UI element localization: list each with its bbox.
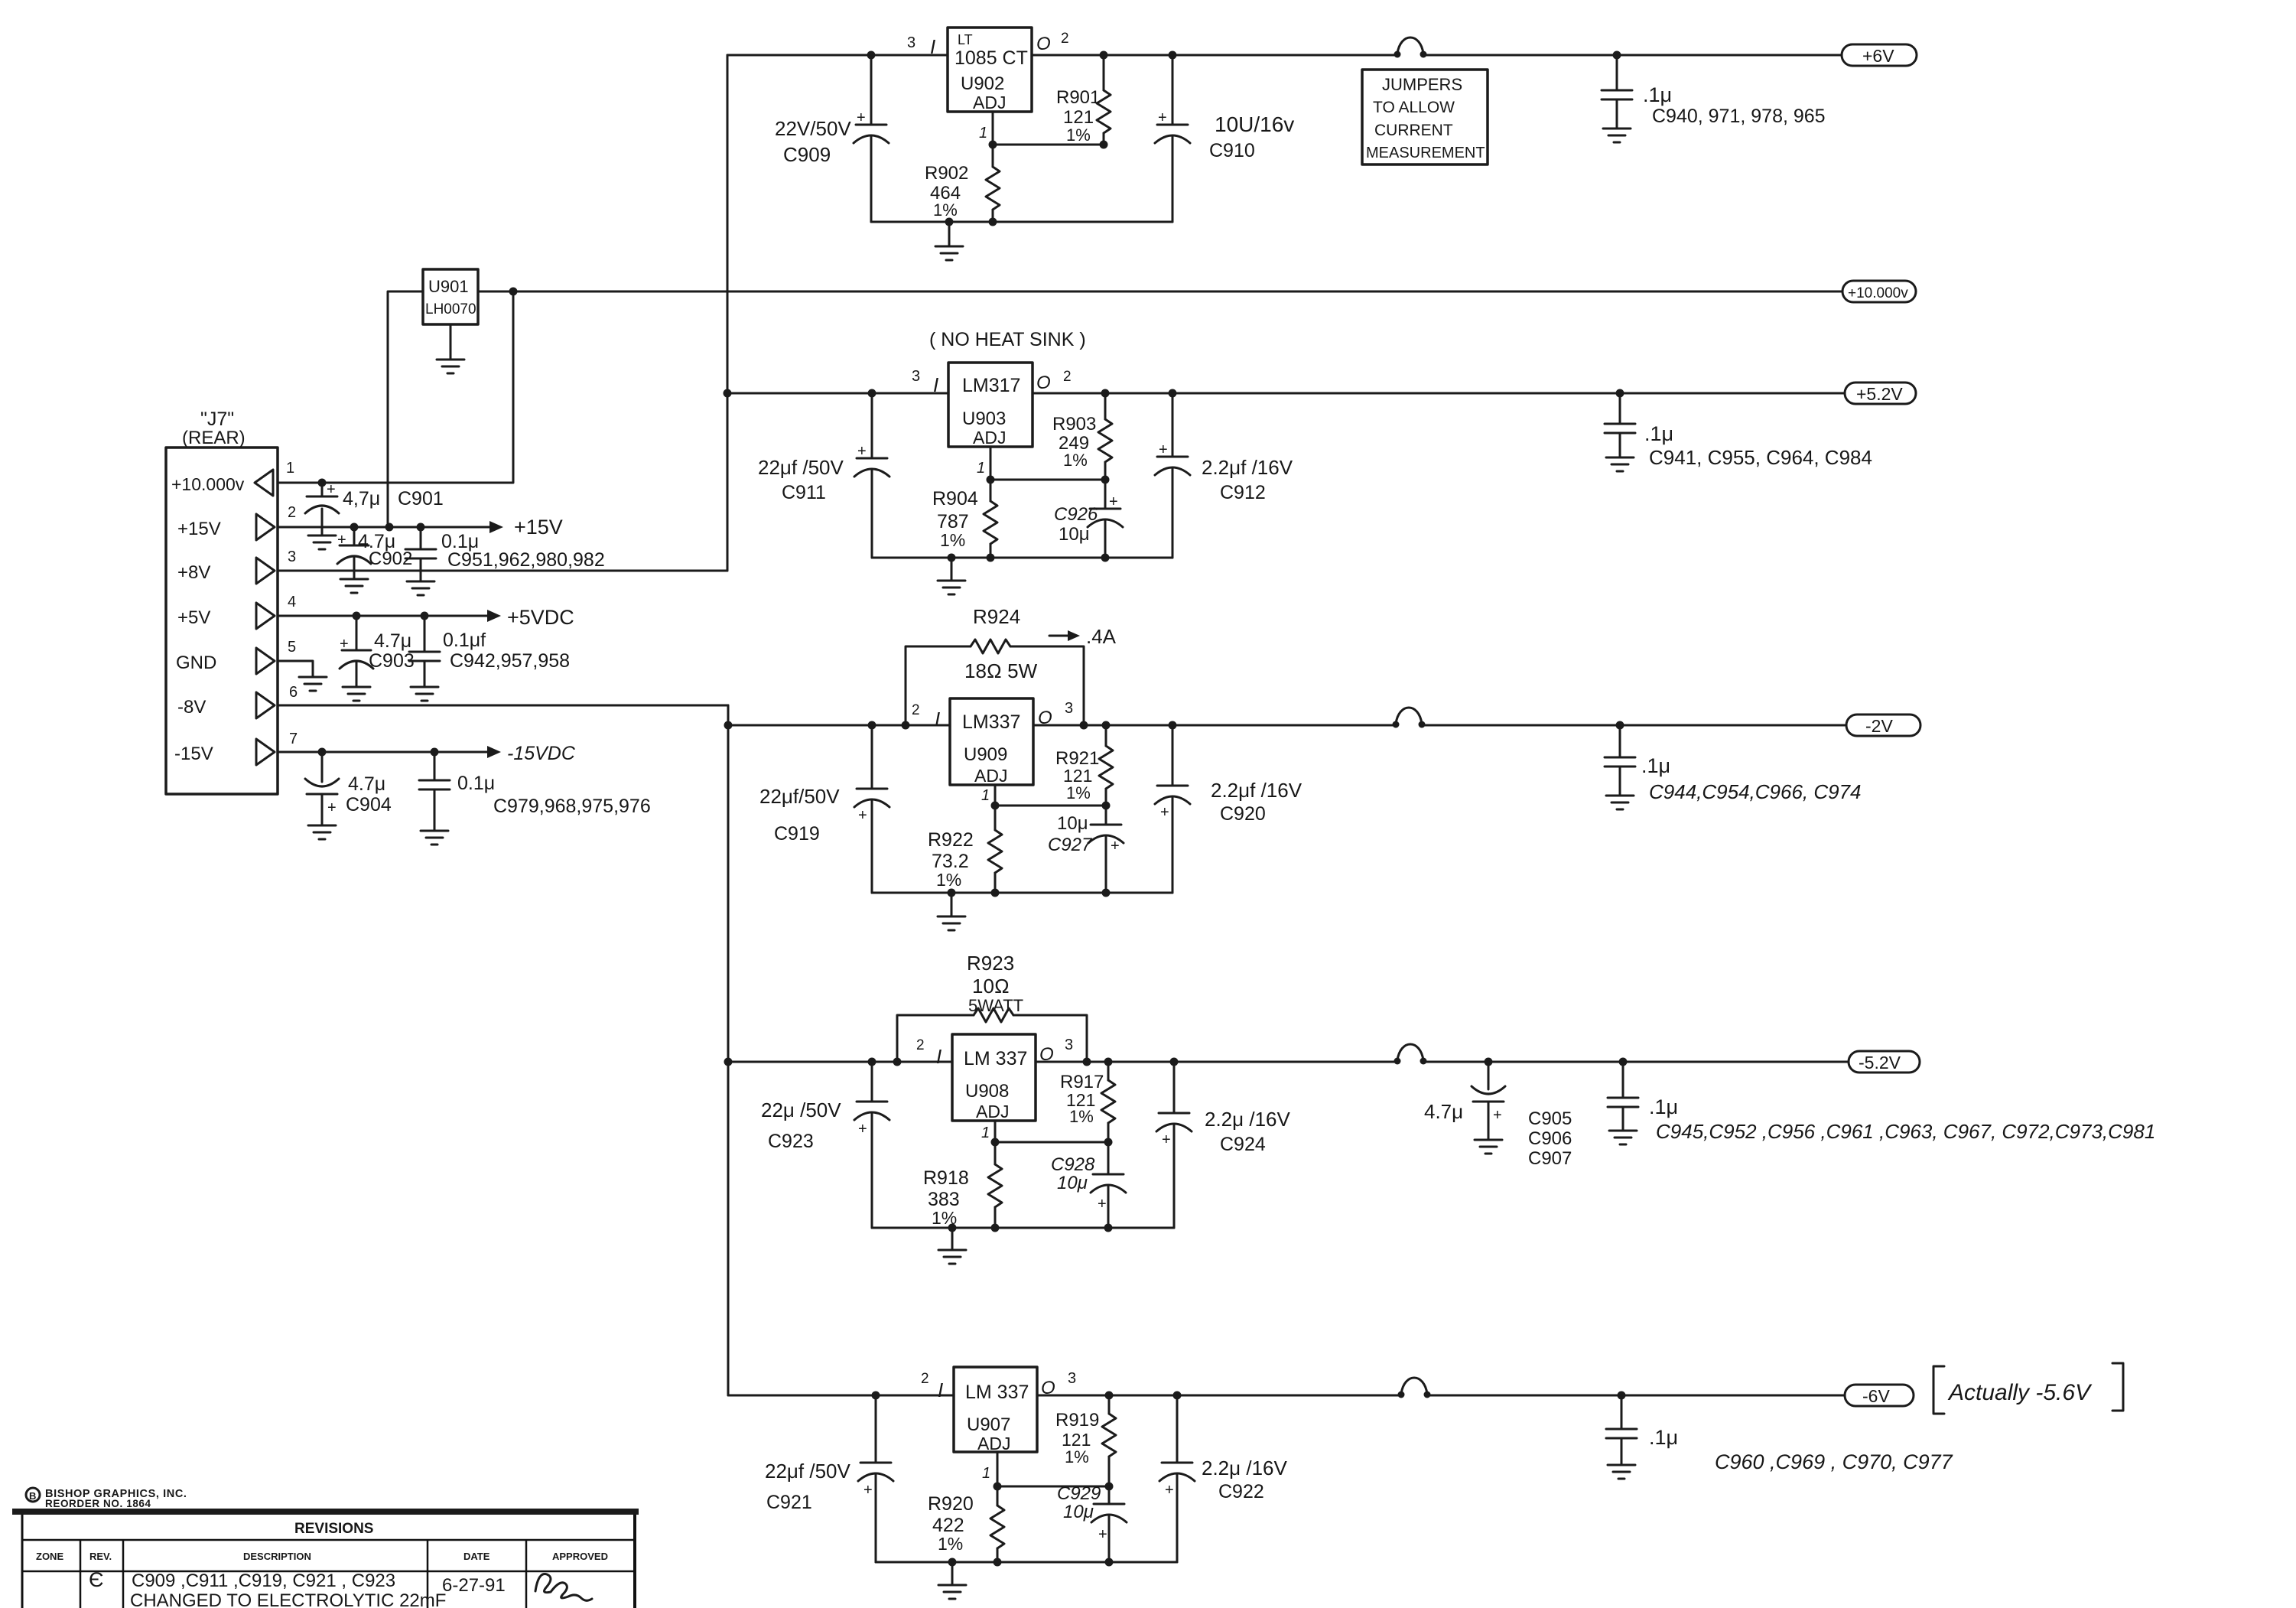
resistor R917 121 1%: [1107, 1062, 1110, 1080]
svg-text:.1μ: .1μ: [1644, 422, 1673, 445]
resistor R919 121 1%: [1108, 1395, 1111, 1414]
svg-text:C940, 971, 978, 965: C940, 971, 978, 965: [1652, 106, 1826, 127]
wire pin1 +10.000V run: [278, 291, 513, 483]
svg-text:2: 2: [912, 702, 920, 718]
capacitor +6V rail .1u: [1616, 55, 1618, 90]
connector J7 (rear): [166, 448, 278, 794]
node +5.2V filter tap: [1616, 389, 1624, 398]
capacitor C904: [321, 752, 324, 782]
resistor R903 249 1%: [1104, 393, 1107, 419]
regulator U909 LM337: [950, 698, 1033, 785]
svg-text:R918: R918: [923, 1167, 969, 1189]
node C924 tap: [1170, 1058, 1179, 1066]
svg-text:-6V: -6V: [1862, 1386, 1890, 1406]
svg-text:C905: C905: [1528, 1108, 1572, 1129]
capacitor C942: [424, 616, 426, 652]
svg-text:ADJ: ADJ: [977, 1434, 1010, 1453]
svg-text:4,7μ: 4,7μ: [343, 488, 380, 509]
node R903 tap: [1101, 389, 1110, 398]
svg-text:C907: C907: [1528, 1148, 1572, 1169]
wire ADJ to R917: [995, 1141, 1108, 1144]
svg-text:-8V: -8V: [177, 697, 206, 718]
capacitor C929 10u: [1108, 1486, 1111, 1504]
svg-text:C923: C923: [768, 1131, 814, 1152]
svg-text:+: +: [1160, 804, 1169, 821]
node U901 feed tap: [385, 523, 394, 532]
net label -5.2V oval: [1849, 1051, 1920, 1073]
svg-text:LM337: LM337: [962, 711, 1020, 733]
svg-text:2: 2: [916, 1037, 925, 1053]
svg-text:Actually -5.6V: Actually -5.6V: [1947, 1380, 2093, 1405]
resistor R921 121 1%: [1105, 725, 1107, 746]
svg-text:R922: R922: [928, 829, 974, 851]
node R901 tap: [1100, 51, 1108, 60]
svg-text:LM317: LM317: [962, 375, 1020, 396]
svg-text:-5.2V: -5.2V: [1859, 1053, 1901, 1073]
svg-text:+: +: [1165, 1482, 1174, 1499]
node -6V filter tap: [1618, 1392, 1626, 1400]
svg-text:3: 3: [1068, 1370, 1076, 1387]
wire U901 output to +10.000V rail: [478, 291, 513, 293]
svg-text:R920: R920: [928, 1493, 974, 1515]
svg-text:(REAR): (REAR): [182, 428, 246, 448]
svg-text:R902: R902: [925, 163, 968, 184]
capacitor C912 2.2uf/16V: [1172, 393, 1174, 457]
wire U909 input: [728, 724, 950, 727]
svg-text:+8V: +8V: [177, 562, 210, 583]
svg-text:+5V: +5V: [177, 607, 210, 628]
svg-text:3: 3: [907, 34, 915, 51]
svg-text:1%: 1%: [1066, 125, 1091, 145]
capacitor -2V rail .1u: [1619, 725, 1621, 757]
svg-text:C945,C952 ,C956 ,C961 ,C963, C: C945,C952 ,C956 ,C961 ,C963, C967, C972,…: [1656, 1120, 2155, 1143]
node R917 tap: [1104, 1058, 1113, 1066]
svg-text:I: I: [936, 1045, 941, 1068]
svg-text:REVISIONS: REVISIONS: [294, 1521, 373, 1537]
svg-text:JUMPERS: JUMPERS: [1382, 75, 1462, 94]
svg-text:REV.: REV.: [89, 1551, 112, 1562]
capacitor C979: [434, 752, 436, 780]
svg-text:1%: 1%: [940, 530, 965, 550]
svg-text:1085 CT: 1085 CT: [954, 47, 1028, 69]
svg-text:+: +: [857, 109, 866, 126]
svg-text:2.2μf /16V: 2.2μf /16V: [1211, 779, 1302, 802]
node C942 tap: [421, 612, 429, 620]
node R923 right tap: [1083, 1058, 1091, 1066]
svg-text:3: 3: [912, 368, 920, 385]
svg-text:R901: R901: [1056, 87, 1100, 108]
svg-text:2: 2: [1061, 31, 1069, 47]
svg-text:1%: 1%: [936, 870, 961, 890]
svg-text:1%: 1%: [938, 1534, 963, 1554]
svg-text:C911: C911: [782, 482, 826, 503]
svg-text:+: +: [1159, 441, 1168, 458]
node C903 tap: [353, 612, 361, 620]
svg-text:5: 5: [288, 639, 296, 656]
svg-text:10μ: 10μ: [1057, 1173, 1088, 1193]
wire pin3 +8V to bus: [278, 570, 727, 572]
svg-text:22V/50V: 22V/50V: [775, 117, 851, 140]
svg-text:2: 2: [288, 504, 296, 521]
pin 6 triangle: [256, 692, 275, 718]
svg-text:U907: U907: [967, 1414, 1010, 1435]
node C910 tap: [1169, 51, 1177, 60]
ground pin5: [299, 676, 327, 679]
wire +6V rail left of jumper: [1032, 54, 1397, 57]
node C979 tap: [431, 748, 439, 757]
node -5.2V filter tap: [1619, 1058, 1628, 1066]
svg-text:I: I: [938, 1379, 943, 1401]
svg-text:B: B: [29, 1490, 36, 1502]
node C904 tap: [318, 748, 327, 757]
svg-text:C928: C928: [1051, 1154, 1095, 1175]
arrow +15V: [489, 521, 503, 533]
svg-text:787: 787: [937, 511, 969, 532]
svg-text:+15V: +15V: [514, 516, 563, 539]
revisions table frame: [21, 1515, 24, 1608]
svg-text:+: +: [857, 443, 867, 460]
svg-text:1: 1: [286, 460, 294, 477]
svg-text:3: 3: [288, 548, 296, 565]
node C912 tap: [1169, 389, 1177, 398]
svg-text:+: +: [1098, 1196, 1107, 1213]
svg-text:+: +: [863, 1482, 873, 1499]
svg-text:+: +: [340, 636, 349, 653]
svg-text:.1μ: .1μ: [1641, 754, 1670, 777]
svg-text:-15V: -15V: [174, 744, 213, 764]
svg-text:C909 ,C911 ,C919, C921 , C923: C909 ,C911 ,C919, C921 , C923: [132, 1571, 395, 1591]
pin 3 triangle: [256, 558, 275, 584]
wire pin7 -15V: [278, 751, 489, 754]
capacitor -6V rail .1u: [1621, 1395, 1623, 1429]
svg-text:121: 121: [1063, 107, 1094, 128]
wire ADJ to R921: [995, 805, 1106, 807]
svg-text:1: 1: [977, 460, 985, 477]
node C902 tap: [350, 523, 359, 532]
jumper -5.2V: [1394, 1058, 1401, 1065]
wire +8V vertical bus: [727, 55, 729, 571]
svg-text:C906: C906: [1528, 1128, 1572, 1149]
svg-text:73.2: 73.2: [932, 851, 969, 872]
jumper -2V: [1393, 721, 1400, 728]
wire ADJ to R901: [993, 144, 1104, 146]
resistor R918 383 1%: [994, 1142, 997, 1164]
svg-text:6-27-91: 6-27-91: [442, 1575, 506, 1596]
arrow -15VDC: [487, 746, 501, 758]
svg-text:0.1μ: 0.1μ: [457, 773, 495, 794]
node bus U909 tap: [724, 721, 733, 730]
svg-text:-15VDC: -15VDC: [507, 743, 576, 764]
svg-text:+10.000v: +10.000v: [1848, 285, 1908, 301]
capacitor -5.2V rail .1u: [1622, 1062, 1624, 1098]
wire pin6 -8V to bus: [278, 705, 728, 707]
svg-text:MEASUREMENT: MEASUREMENT: [1366, 145, 1485, 161]
resistor R902 464 1%: [992, 145, 994, 167]
svg-text:22μ /50V: 22μ /50V: [761, 1099, 841, 1121]
svg-text:LM 337: LM 337: [964, 1048, 1027, 1069]
svg-text:+15V: +15V: [177, 519, 221, 539]
node bus U903 tap: [724, 389, 732, 398]
svg-text:C912: C912: [1220, 482, 1266, 503]
ground U909 block: [951, 893, 953, 916]
svg-text:10Ω: 10Ω: [972, 975, 1010, 998]
svg-text:1%: 1%: [933, 200, 958, 220]
svg-text:+: +: [1098, 1526, 1107, 1543]
wire +10.000V rail: [513, 291, 1842, 293]
svg-text:U903: U903: [962, 409, 1006, 429]
svg-text:22μf /50V: 22μf /50V: [765, 1460, 850, 1483]
capacitor C919 22uf/50V: [871, 725, 873, 789]
svg-text:1%: 1%: [1063, 451, 1088, 470]
node -2V filter tap: [1616, 721, 1624, 730]
svg-text:C904: C904: [346, 794, 392, 815]
svg-text:10μ: 10μ: [1057, 813, 1088, 834]
resistor R922 73.2 1%: [994, 806, 997, 830]
voltage reference U901 LH0070: [423, 269, 478, 324]
svg-text:+10.000v: +10.000v: [171, 474, 245, 494]
wire ADJ to R903: [990, 479, 1105, 481]
jumper -6V: [1398, 1392, 1405, 1398]
svg-text:.1μ: .1μ: [1649, 1426, 1678, 1449]
wire -5.2V rail right of jumper: [1423, 1061, 1849, 1063]
capacitor C911 22uf/50V: [871, 393, 873, 458]
svg-text:C944,C954,C966, C974: C944,C954,C966, C974: [1649, 780, 1862, 803]
svg-text:1%: 1%: [1069, 1107, 1094, 1126]
svg-text:1%: 1%: [1066, 783, 1091, 802]
svg-text:C901: C901: [398, 488, 444, 509]
net label +6V oval: [1842, 44, 1917, 66]
note box JUMPERS TO ALLOW CURRENT MEASUREMENT: [1362, 70, 1488, 164]
node C922 tap: [1173, 1392, 1182, 1400]
svg-text:6: 6: [289, 684, 298, 701]
svg-text:I: I: [935, 708, 940, 731]
svg-text:R919: R919: [1055, 1410, 1099, 1431]
ground -2V filter: [1606, 795, 1634, 797]
svg-text:CHANGED TO ELECTROLYTIC 22mF: CHANGED TO ELECTROLYTIC 22mF: [130, 1590, 446, 1608]
svg-text:C909: C909: [783, 143, 831, 166]
svg-text:C922: C922: [1218, 1481, 1264, 1502]
pin 4 triangle: [256, 603, 275, 629]
ground C904: [308, 825, 336, 827]
arrow .4A: [1049, 635, 1071, 637]
capacitor C923 22u/50V: [871, 1062, 873, 1102]
svg-text:R923: R923: [967, 952, 1014, 975]
node C920 tap: [1169, 721, 1177, 730]
node +6V filter tap: [1613, 51, 1621, 60]
svg-text:C926: C926: [1054, 504, 1098, 525]
capacitor C905 C906 C907 4.7u: [1488, 1062, 1490, 1089]
ground -5.2V filter: [1609, 1130, 1637, 1132]
resistor R901 121 1%: [1103, 55, 1105, 90]
svg-text:+: +: [1158, 109, 1167, 126]
svg-text:2: 2: [921, 1371, 929, 1387]
wire U908 input: [728, 1061, 952, 1063]
node C909 tap: [867, 51, 876, 60]
svg-text:C903: C903: [369, 650, 415, 672]
svg-text:ADJ: ADJ: [974, 766, 1007, 786]
net label +5.2V oval: [1845, 382, 1916, 404]
node C911 tap: [868, 389, 876, 398]
node R919 tap: [1105, 1392, 1114, 1400]
svg-text:CURRENT: CURRENT: [1374, 122, 1453, 139]
svg-text:C929: C929: [1057, 1483, 1101, 1504]
svg-text:.1μ: .1μ: [1649, 1095, 1678, 1118]
svg-text:R904: R904: [932, 488, 978, 509]
svg-text:C951,962,980,982: C951,962,980,982: [447, 549, 605, 571]
wire -8V vertical bus: [727, 705, 730, 1395]
ground -6V filter: [1608, 1464, 1635, 1466]
ground C951: [407, 581, 434, 583]
svg-text:18Ω 5W: 18Ω 5W: [964, 659, 1038, 682]
svg-text:C960 ,C969 , C970, C977: C960 ,C969 , C970, C977: [1715, 1450, 1953, 1473]
svg-text:GND: GND: [176, 653, 216, 673]
ground C901: [308, 535, 336, 537]
ground C979: [421, 830, 448, 832]
svg-text:.4A: .4A: [1086, 625, 1117, 648]
svg-text:2: 2: [1063, 369, 1072, 385]
svg-text:C941, C955, C964, C984: C941, C955, C964, C984: [1649, 446, 1872, 469]
node R921 tap: [1102, 721, 1111, 730]
revisions table column header bottom line: [22, 1571, 635, 1573]
wire U908 bottom: [872, 1227, 1174, 1229]
node R924 left tap: [902, 721, 910, 730]
ground U901: [450, 324, 452, 360]
svg-text:U901: U901: [428, 277, 469, 296]
svg-text:3: 3: [1065, 700, 1073, 717]
wire U903 input: [727, 392, 948, 395]
resistor R904 787 1%: [990, 480, 992, 501]
regulator U907 LM337: [954, 1367, 1037, 1452]
svg-text:ADJ: ADJ: [973, 428, 1006, 448]
jumper +6V: [1394, 51, 1401, 58]
svg-text:O: O: [1036, 34, 1051, 54]
svg-text:+: +: [1493, 1107, 1502, 1124]
wire U902 bottom: [871, 221, 1172, 223]
svg-text:R924: R924: [973, 605, 1020, 628]
capacitor C920 2.2uf/16V: [1172, 725, 1174, 786]
svg-text:22μf/50V: 22μf/50V: [759, 785, 840, 808]
svg-text:C927: C927: [1048, 835, 1093, 855]
node C951 tap: [417, 523, 425, 532]
svg-text:ADJ: ADJ: [976, 1102, 1009, 1121]
wire U903 bottom: [872, 557, 1172, 559]
node pin1 C901 tap: [318, 479, 327, 487]
svg-text:4.7μ: 4.7μ: [374, 630, 411, 652]
svg-text:22μf /50V: 22μf /50V: [758, 456, 844, 479]
logo Bishop Graphics circle B: [26, 1488, 40, 1502]
wire U907 bottom: [876, 1561, 1177, 1564]
ground U908 block: [951, 1228, 954, 1250]
regulator U902 LT1085CT: [948, 28, 1032, 112]
svg-text:ADJ: ADJ: [973, 93, 1006, 112]
ground C903: [343, 686, 370, 688]
ground U907 block: [951, 1562, 954, 1585]
svg-text:+: +: [1162, 1131, 1171, 1148]
wire U903 ADJ: [990, 447, 992, 480]
capacitor C909 22V/50V: [870, 55, 873, 125]
ground +5.2V filter: [1606, 457, 1634, 459]
wire U902 ADJ: [992, 112, 994, 145]
node R923 left tap: [893, 1058, 902, 1066]
svg-text:-2V: -2V: [1865, 716, 1893, 736]
wire U907 input: [728, 1395, 954, 1397]
svg-text:+6V: +6V: [1862, 46, 1894, 66]
svg-text:+: +: [327, 481, 336, 498]
node C919 tap: [868, 721, 876, 730]
capacitor C921 22uf/50V: [875, 1395, 877, 1463]
revision row approved signature: [535, 1574, 592, 1600]
capacitor C901: [321, 483, 324, 496]
wire U908 ADJ: [994, 1121, 997, 1142]
svg-text:ZONE: ZONE: [36, 1551, 63, 1562]
capacitor C922 2.2u/16V: [1176, 1395, 1179, 1463]
svg-text:"J7": "J7": [200, 409, 234, 430]
svg-text:2.2μ /16V: 2.2μ /16V: [1205, 1108, 1290, 1131]
svg-text:+: +: [858, 807, 867, 824]
node 4.7u tap: [1485, 1058, 1493, 1066]
svg-text:1: 1: [981, 1125, 990, 1141]
wire U901 input from +15V: [388, 291, 423, 527]
svg-text:C924: C924: [1220, 1134, 1266, 1155]
svg-text:+: +: [1109, 493, 1118, 510]
svg-text:1: 1: [981, 787, 990, 804]
svg-text:C920: C920: [1220, 803, 1266, 825]
svg-text:U909: U909: [964, 744, 1007, 765]
svg-text:LT: LT: [958, 32, 973, 47]
svg-text:+5VDC: +5VDC: [507, 606, 574, 629]
svg-text:C910: C910: [1209, 140, 1255, 161]
node +10.000V rail tap: [509, 288, 518, 296]
svg-text:DESCRIPTION: DESCRIPTION: [243, 1551, 311, 1562]
ground C942: [411, 686, 438, 688]
ground C902: [340, 578, 368, 581]
svg-text:+: +: [1111, 838, 1120, 854]
svg-text:LM 337: LM 337: [965, 1382, 1029, 1403]
ground +6V filter: [1603, 128, 1631, 130]
svg-text:+: +: [858, 1121, 867, 1138]
svg-text:1%: 1%: [1065, 1447, 1089, 1466]
wire -6V rail left of jumper: [1037, 1395, 1401, 1397]
svg-text:R917: R917: [1060, 1072, 1104, 1092]
svg-text:0.1μf: 0.1μf: [443, 630, 486, 651]
wire U907 ADJ: [997, 1452, 999, 1486]
wire ADJ to R919: [997, 1486, 1109, 1488]
svg-text:10U/16v: 10U/16v: [1215, 112, 1294, 136]
capacitor C924 2.2u/16V: [1173, 1062, 1176, 1113]
svg-text:LH0070: LH0070: [425, 301, 476, 317]
pin 5 triangle: [256, 648, 275, 674]
svg-text:2.2μ /16V: 2.2μ /16V: [1202, 1457, 1287, 1479]
svg-text:10μ: 10μ: [1059, 524, 1090, 545]
resistor R920 422 1%: [997, 1486, 999, 1505]
capacitor C902: [353, 527, 356, 545]
svg-text:C942,957,958: C942,957,958: [450, 650, 570, 672]
svg-text:4.7μ: 4.7μ: [348, 773, 385, 795]
svg-text:REORDER NO. 1864: REORDER NO. 1864: [45, 1498, 151, 1509]
wire -6V rail right of jumper: [1427, 1395, 1845, 1397]
revisions table top bar: [12, 1509, 639, 1515]
revisions table column lines: [80, 1540, 82, 1608]
svg-text:422: 422: [932, 1515, 964, 1536]
net label +10.000V oval: [1842, 281, 1916, 302]
arrow +5VDC: [487, 610, 501, 622]
wire pin2 +15V: [278, 526, 492, 529]
wire U909 ADJ: [994, 785, 997, 806]
wire pin4 +5V: [278, 615, 489, 617]
capacitor C910 10U/16V: [1172, 55, 1174, 125]
wire +5.2V rail: [1033, 392, 1845, 395]
node C923 tap: [868, 1058, 876, 1066]
